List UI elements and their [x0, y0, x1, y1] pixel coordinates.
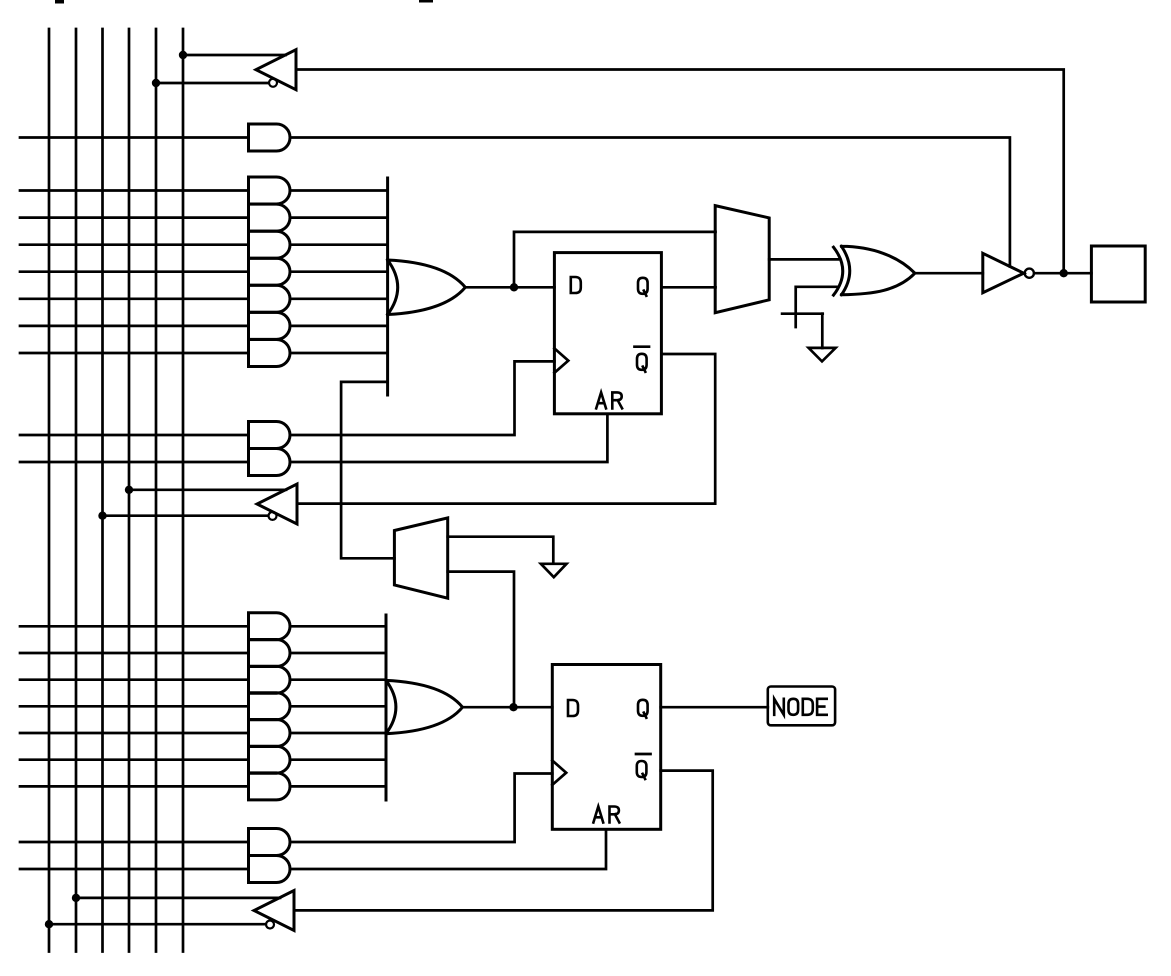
XOR gate U3	[834, 246, 915, 295]
B3 bubble	[266, 921, 274, 929]
feedback buffer B1	[256, 50, 296, 90]
product term row 8	[20, 625, 249, 628]
wire P4 output	[290, 270, 388, 273]
wire inverter output to pin	[1034, 272, 1091, 275]
node pin junction	[1060, 269, 1068, 277]
wire P7 output	[290, 352, 388, 355]
AND gate P1	[249, 177, 291, 204]
wire OR1 output to D	[465, 286, 554, 289]
product term row 5	[20, 297, 249, 300]
wire P13 output	[290, 758, 386, 761]
AND gate P3	[249, 231, 291, 258]
mux M1	[715, 206, 769, 313]
product term row 10	[20, 678, 249, 681]
AND gate clock 2	[249, 829, 291, 856]
D flip-flop U6 box	[552, 665, 660, 830]
wire P9 output	[290, 652, 386, 655]
U6 label AR	[593, 807, 603, 823]
AND gate P9	[249, 640, 291, 667]
wire mux1 output	[769, 258, 838, 261]
wire B2 true output	[129, 488, 286, 491]
U2 label Qbar	[637, 354, 647, 372]
wire B3 true output	[76, 897, 280, 900]
AND gate P2	[249, 204, 291, 231]
wire OE output	[290, 138, 1010, 267]
fuse cross bar	[782, 312, 823, 315]
node B1 true junction	[179, 51, 187, 59]
OR gate U5	[386, 680, 463, 733]
U2 label AR	[596, 392, 606, 408]
node B1 complement junction	[152, 79, 160, 87]
AND gate P7	[249, 340, 291, 367]
wire XOR lower input	[796, 287, 838, 327]
product term row AR 1	[20, 461, 249, 464]
U6 Qbar overline	[636, 753, 651, 756]
wire P12 output	[290, 732, 386, 735]
U2 clock triangle	[554, 348, 568, 372]
feedback buffer B2	[257, 484, 297, 524]
node B2 complement junction	[98, 512, 106, 520]
wire Q1 to mux	[661, 286, 715, 289]
wire Qbar2 feedback	[294, 771, 713, 911]
product term row 1	[20, 189, 249, 192]
product term row 7	[20, 352, 249, 355]
ground G1	[809, 348, 836, 362]
U6 label Q	[638, 700, 648, 718]
AND array column line 3	[101, 29, 104, 952]
wire OR2 output to D	[463, 706, 553, 709]
wire B3 complement output	[49, 923, 266, 926]
feedback buffer B3	[254, 891, 294, 931]
wire AR1	[290, 414, 607, 462]
AND gate P13	[249, 746, 291, 773]
AND array column line 5	[155, 29, 158, 952]
U2 Qbar overline	[635, 345, 650, 348]
OR input bar 2	[385, 615, 388, 800]
wire fuse to ground	[821, 314, 824, 348]
AND gate AR 2	[249, 856, 291, 883]
B2 bubble	[269, 512, 277, 520]
AND array column line 2	[75, 29, 78, 952]
product term row AR 2	[20, 868, 249, 871]
scan speck top edge	[55, 0, 64, 4]
wire Qbar1 feedback	[297, 354, 715, 504]
AND gate P14	[249, 773, 291, 800]
wire P6 output	[290, 325, 388, 328]
AND gate P12	[249, 720, 291, 747]
B1 bubble	[269, 79, 277, 87]
U2 label Q	[638, 278, 648, 296]
ground G2	[541, 564, 567, 577]
tri-state inverter U4	[983, 253, 1024, 292]
wire mux2 input gnd	[448, 537, 554, 564]
node B3 true junction	[72, 894, 80, 902]
mux M2	[394, 518, 447, 598]
product term row 14	[20, 785, 249, 788]
node B2 true junction	[125, 486, 133, 494]
OR input bar 1	[386, 178, 389, 395]
wire Q2 to NODE	[661, 706, 768, 709]
AND gate P10	[249, 666, 291, 693]
product term row 12	[20, 732, 249, 735]
wire pin feedback	[296, 70, 1064, 274]
D flip-flop U2 box	[554, 253, 661, 414]
wire P8 output	[290, 625, 386, 628]
wire clock1	[290, 361, 554, 435]
AND gate P8	[249, 613, 291, 640]
product term row clock 2	[20, 841, 249, 844]
U6 clock triangle	[552, 761, 566, 785]
wire B1 true output	[183, 54, 286, 57]
AND gate clock 1	[249, 422, 290, 449]
AND array column line 1	[48, 29, 51, 952]
wire D1 node to mux input A	[514, 232, 716, 287]
AND gate P11	[249, 693, 291, 720]
wire P10 output	[290, 678, 386, 681]
U6 label Qbar	[637, 761, 647, 779]
product term row 11	[20, 705, 249, 708]
AND gate P6	[249, 312, 291, 339]
AND gate P4	[249, 258, 291, 285]
wire XOR output	[915, 272, 983, 275]
wire AR2	[290, 829, 606, 869]
U4 bubble	[1025, 269, 1034, 278]
product term row 2	[20, 216, 249, 219]
wire P11 output	[290, 705, 386, 708]
U6 label D	[568, 700, 578, 716]
OR gate U1	[388, 260, 466, 315]
product term row clock 1	[20, 434, 249, 437]
product term row 9	[20, 652, 249, 655]
AND gate P5	[249, 285, 291, 312]
AND gate AR 1	[249, 449, 291, 476]
wire P5 output	[290, 297, 388, 300]
wire clock2	[290, 774, 552, 843]
wire mux2 input from D2	[448, 572, 514, 708]
wire B2 complement output	[103, 514, 269, 517]
U2 label D	[571, 277, 581, 293]
NODE label	[774, 699, 784, 715]
AND array column line 4	[128, 29, 131, 952]
wire B1 complement output	[156, 82, 269, 85]
node D1 junction	[510, 283, 518, 291]
product term row 13	[20, 758, 249, 761]
product term row 3	[20, 243, 249, 246]
product term row 4	[20, 270, 249, 273]
wire P2 output	[290, 216, 388, 219]
NODE box	[768, 687, 835, 726]
wire P3 output	[290, 243, 388, 246]
node D2 junction	[509, 703, 517, 711]
wire P1 output	[290, 189, 388, 192]
wire mux2 output to OR bar	[341, 382, 394, 558]
product term row 6	[20, 325, 249, 328]
node B3 complement junction	[45, 920, 53, 928]
product term row OE	[20, 136, 249, 139]
AND gate OE	[249, 124, 291, 151]
wire P14 output	[290, 785, 386, 788]
AND array column line 6	[182, 29, 185, 952]
I/O pin square	[1091, 246, 1145, 302]
